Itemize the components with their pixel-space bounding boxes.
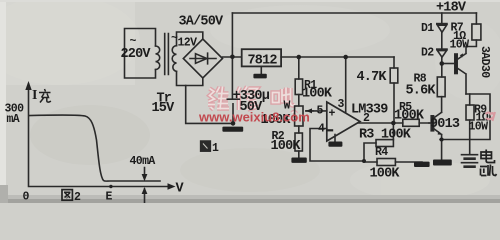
svg-text:www.weixiu8.com: www.weixiu8.com (198, 110, 310, 125)
svg-text:5.6K: 5.6K (406, 84, 437, 99)
svg-text:7812: 7812 (248, 54, 278, 69)
svg-text:R4: R4 (375, 146, 388, 159)
svg-text:10W: 10W (469, 121, 489, 134)
svg-text:3: 3 (338, 98, 345, 111)
svg-text:+18V: +18V (436, 1, 467, 16)
svg-text:I: I (32, 88, 37, 103)
svg-text:12V: 12V (178, 37, 198, 50)
svg-text:0: 0 (23, 191, 30, 204)
svg-text:mA: mA (7, 113, 20, 126)
svg-text:15V: 15V (152, 101, 176, 116)
svg-text:3AD30: 3AD30 (478, 46, 491, 78)
svg-text:R3 100K: R3 100K (359, 128, 412, 143)
svg-text:3A/50V: 3A/50V (179, 15, 225, 30)
svg-text:40mA: 40mA (130, 155, 156, 168)
svg-text:D2: D2 (421, 47, 434, 60)
svg-text:4: 4 (318, 123, 325, 136)
svg-text:220V: 220V (121, 47, 152, 62)
svg-text:D1: D1 (421, 22, 434, 35)
svg-text:100K: 100K (271, 139, 302, 154)
svg-text:9013: 9013 (430, 117, 460, 132)
svg-text:E: E (106, 191, 113, 204)
svg-text:10W: 10W (450, 39, 470, 52)
svg-text:5: 5 (317, 105, 324, 118)
svg-text:100K: 100K (370, 167, 401, 182)
svg-text:100K: 100K (302, 87, 333, 102)
svg-text:2: 2 (74, 191, 81, 203)
svg-text:4.7K: 4.7K (357, 70, 388, 85)
svg-text:+: + (329, 108, 336, 121)
svg-text:100K: 100K (394, 109, 425, 124)
svg-text:1: 1 (212, 142, 219, 155)
svg-text:LM339: LM339 (351, 103, 388, 118)
